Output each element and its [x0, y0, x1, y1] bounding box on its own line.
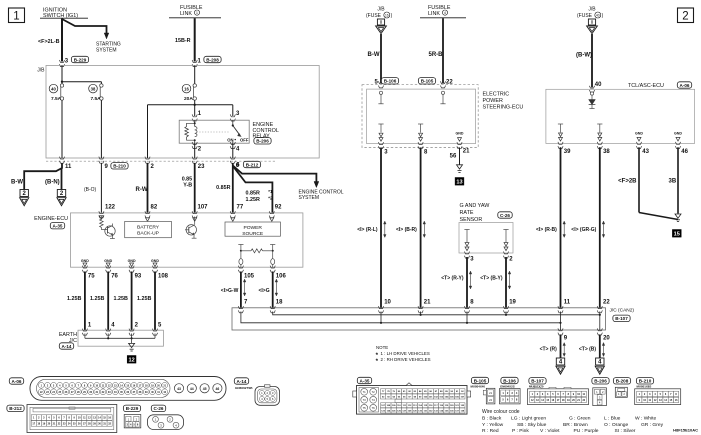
svg-text:<T> (B): <T> (B) — [579, 347, 597, 353]
svg-text:G AND YAW: G AND YAW — [460, 203, 491, 209]
jumper wire to relay pins 1 and 3 and to pin 2 exit — [148, 104, 233, 106]
wire 0.85 Y-B pin 23 to ECU pin 107 — [194, 163, 196, 213]
svg-text:74: 74 — [372, 398, 376, 402]
svg-text:20: 20 — [603, 336, 610, 342]
svg-text:1: 1 — [13, 11, 19, 23]
svg-text:B : Black: B : Black — [482, 416, 502, 422]
off-page arrow 2 right — [57, 190, 65, 197]
connector B-206 label — [592, 378, 609, 384]
svg-text:GN604X2S: GN604X2S — [500, 384, 515, 388]
connector A-14 drawing — [255, 387, 280, 406]
svg-text:1.25B: 1.25B — [90, 296, 104, 302]
TCL pin 40 junction — [589, 86, 594, 88]
svg-text:21: 21 — [424, 300, 431, 306]
ECU internal transistor at pin 107 — [186, 225, 196, 235]
connector junction B-105 22 — [440, 81, 445, 83]
svg-text:76: 76 — [372, 406, 376, 410]
CAN-H bus line — [241, 312, 561, 323]
svg-text:MU801X8S: MU801X8S — [637, 384, 652, 388]
svg-text:TCL/ASC-ECU: TCL/ASC-ECU — [628, 83, 664, 89]
svg-text:38: 38 — [603, 149, 610, 155]
svg-text:46: 46 — [216, 387, 220, 391]
CAN wire TCL pin 38 to J/C pin 22 — [599, 147, 601, 307]
wire R-W pin 2 to ECU pin 82 — [147, 163, 149, 213]
J/C CAN2 exit pin 20 — [597, 328, 602, 330]
svg-text:1.25B: 1.25B — [67, 296, 81, 302]
connector B-105 drawing — [486, 388, 495, 404]
svg-text:3B: 3B — [669, 179, 677, 185]
earth J/C internal bus — [84, 334, 86, 339]
J/C CAN2 entry pin 7 — [238, 306, 243, 308]
wire fusible link 1 to J/B pin 1 — [194, 18, 196, 61]
svg-text:21: 21 — [463, 149, 470, 155]
svg-text:SOURCE: SOURCE — [242, 231, 264, 237]
svg-text:13: 13 — [456, 180, 462, 186]
sheet number 1 box — [9, 8, 25, 23]
svg-text:J/C (CAN2): J/C (CAN2) — [610, 308, 635, 314]
J/B exit pin 23 — [192, 157, 197, 159]
svg-text:73: 73 — [363, 398, 367, 402]
relay switch contact — [232, 120, 234, 125]
svg-text:B-210: B-210 — [639, 379, 652, 384]
svg-text:22: 22 — [603, 300, 610, 306]
svg-text:B-105: B-105 — [421, 79, 434, 84]
svg-text:16: 16 — [184, 86, 189, 91]
svg-text:105: 105 — [244, 274, 255, 280]
connector B-210 label — [636, 378, 653, 384]
wire (B-W) to TCL pin 40 — [591, 34, 593, 88]
svg-text:BATTERY: BATTERY — [137, 224, 160, 230]
svg-text:L : Blue: L : Blue — [604, 416, 621, 422]
svg-text:ELECTRIC: ELECTRIC — [483, 91, 510, 97]
connector A-14 label — [234, 378, 248, 384]
svg-text:B-210: B-210 — [113, 164, 126, 169]
svg-text:STEERING-ECU: STEERING-ECU — [483, 104, 524, 110]
svg-text:SENSOR: SENSOR — [460, 217, 483, 223]
svg-text:Y-B: Y-B — [183, 183, 192, 189]
connector B-206 drawing — [593, 388, 607, 406]
ENGINE-ECU box A-35 — [71, 213, 303, 267]
svg-text:BR : Brown: BR : Brown — [563, 422, 588, 428]
wire fuse 40 to pin 11 — [61, 100, 63, 158]
svg-text:C-26: C-26 — [500, 213, 510, 218]
CAN wire ECU pin 106 to J/C pin 18 — [270, 266, 275, 268]
svg-text:A-06: A-06 — [680, 83, 690, 88]
relay coil with parallel resistor — [194, 120, 196, 126]
svg-text:GND: GND — [104, 259, 112, 263]
svg-text:LINK: LINK — [180, 11, 192, 17]
svg-text:A-35: A-35 — [53, 224, 63, 229]
EPS internal output stubs — [378, 123, 383, 125]
off-page arrow 2 left — [20, 190, 28, 197]
wire ignition switch to J/B pin 3 — [61, 19, 63, 62]
TCL internal output stubs — [558, 123, 563, 125]
J/B exit pin 11 — [59, 157, 64, 159]
svg-text:GND: GND — [81, 259, 89, 263]
svg-text:J/B: J/B — [37, 68, 45, 74]
J/C CAN2 entry pin 8 — [464, 306, 469, 308]
ECU input junction — [192, 211, 197, 213]
svg-text:1.25R: 1.25R — [246, 197, 260, 203]
CAN wire EPS pin 3 to J/C pin 10 — [380, 148, 382, 308]
svg-text:75: 75 — [363, 406, 367, 410]
svg-text:B-106: B-106 — [503, 378, 516, 383]
svg-text:J/B: J/B — [377, 7, 385, 13]
svg-text:72: 72 — [372, 390, 376, 394]
svg-text:W : White: W : White — [635, 416, 656, 422]
connector B-208 label — [613, 378, 630, 384]
svg-text:B-208: B-208 — [206, 57, 219, 62]
svg-text:10: 10 — [384, 300, 391, 306]
svg-text:1: 1 — [196, 11, 198, 15]
sensor output junctions 3 2 — [464, 252, 469, 254]
electric power steering ECU dashed box — [362, 85, 478, 148]
earth J/C input junction — [82, 329, 87, 331]
earth J/C input junction — [106, 329, 111, 331]
svg-text:(FUSE: (FUSE — [366, 13, 382, 19]
svg-text:B-206: B-206 — [256, 139, 269, 144]
ECU ground pin 75 junction and wire — [82, 266, 87, 268]
connector C-26 label — [151, 405, 165, 411]
sensor internal stubs — [464, 229, 469, 231]
svg-text:15: 15 — [674, 232, 680, 238]
svg-text:GND: GND — [674, 131, 682, 135]
fuse 16 20A — [194, 66, 196, 85]
svg-text:<F>2L-B: <F>2L-B — [38, 39, 60, 45]
POWER SOURCE box — [225, 222, 280, 236]
svg-text:40: 40 — [595, 82, 602, 88]
svg-text:GN60627SB: GN60627SB — [235, 386, 253, 390]
svg-text:77: 77 — [237, 205, 244, 211]
svg-text:LG : Light green: LG : Light green — [511, 416, 546, 422]
connector B-212 label — [7, 405, 24, 411]
svg-text:A-35: A-35 — [360, 378, 370, 383]
svg-text:B-208: B-208 — [616, 379, 629, 384]
electric power steering ECU inner box — [367, 89, 476, 144]
CAN wire EPS pin 8 to J/C pin 21 — [420, 148, 422, 308]
bus tap verticals — [380, 312, 382, 323]
svg-text:B-105: B-105 — [474, 378, 487, 383]
svg-text:O : Orange: O : Orange — [604, 422, 628, 428]
J/B exit pin 6 B-212 — [230, 157, 235, 159]
exit wire <T>(R) to off-page 4 — [560, 335, 562, 359]
svg-text:POWER: POWER — [483, 98, 503, 104]
svg-text:<I> (R-L): <I> (R-L) — [357, 227, 378, 233]
branch wire to starting system with arrow — [62, 19, 107, 34]
earth J/C input junction — [129, 329, 134, 331]
svg-text:A-06: A-06 — [12, 379, 22, 384]
EPS ground wire and ground ref 13 — [459, 148, 461, 165]
earth J/C input junction — [152, 329, 157, 331]
svg-text:C-26: C-26 — [154, 406, 164, 411]
J/B exit pin 2 — [145, 157, 150, 159]
svg-text:0.85R: 0.85R — [216, 185, 230, 191]
connector junction 3 B-229 — [59, 60, 64, 62]
svg-text:23: 23 — [198, 164, 205, 170]
fuse 38 7.5A — [100, 84, 103, 87]
svg-text:(B-W): (B-W) — [576, 53, 592, 59]
svg-text:B-212: B-212 — [9, 406, 22, 411]
connector C-26 drawing — [148, 415, 184, 430]
svg-text:11: 11 — [564, 300, 571, 306]
svg-text:SYSTEM: SYSTEM — [96, 47, 117, 53]
svg-text:POWER: POWER — [243, 225, 262, 231]
wire pin 11 to off-page arrows — [24, 163, 62, 190]
connector row dashed line under J/B — [46, 160, 276, 162]
svg-text:19: 19 — [509, 300, 516, 306]
svg-text:71: 71 — [363, 390, 367, 394]
connector junction 5 B-106 — [378, 81, 383, 83]
svg-text:B-106: B-106 — [384, 79, 397, 84]
CAN wire sensor pin 3 to J/C pin 8 — [466, 257, 468, 308]
svg-text:106: 106 — [276, 274, 287, 280]
off-page arrow 4 right — [596, 358, 604, 365]
svg-text:R : Red: R : Red — [482, 428, 499, 434]
svg-text:7.5A: 7.5A — [91, 96, 102, 102]
connector A-35 drawing — [357, 386, 468, 415]
svg-text:<I>G: <I>G — [258, 288, 269, 294]
svg-text:RATE: RATE — [460, 210, 474, 216]
ECU internal resistor and transistor at pin 122 — [100, 216, 104, 230]
svg-text:GND: GND — [128, 259, 136, 263]
svg-text:H8F15E10AC: H8F15E10AC — [673, 428, 698, 433]
svg-text:39: 39 — [564, 149, 571, 155]
svg-text:92: 92 — [275, 205, 282, 211]
svg-text:LINK: LINK — [428, 11, 440, 17]
svg-text:V : Violet: V : Violet — [540, 428, 560, 434]
off-page arrow 4 left — [556, 358, 564, 365]
svg-text:G : Green: G : Green — [569, 416, 591, 422]
connector A-06 drawing — [30, 377, 226, 401]
connector B-106 label — [501, 377, 518, 383]
svg-text:Y : Yellow: Y : Yellow — [482, 422, 504, 428]
connector B-107 label — [529, 378, 546, 384]
svg-text:B-107: B-107 — [531, 379, 544, 384]
svg-text:11: 11 — [65, 164, 72, 170]
wire from pin 3 to fuses 40 and 38 — [61, 66, 63, 85]
connector B-229 drawing — [124, 415, 141, 428]
svg-text:4: 4 — [444, 11, 446, 15]
G and yaw rate sensor box — [459, 223, 513, 254]
svg-text:MU804X40: MU804X40 — [471, 384, 486, 388]
ECU ground pin 108 junction and wire — [152, 266, 157, 268]
ECU ground pin 76 junction and wire — [106, 266, 111, 268]
svg-text:40: 40 — [596, 14, 600, 18]
svg-text:108: 108 — [158, 274, 169, 280]
svg-text:NOTE: NOTE — [376, 345, 388, 350]
svg-text:B-W: B-W — [368, 52, 380, 58]
svg-text:B-206: B-206 — [594, 379, 607, 384]
connector junction 1 B-208 — [192, 60, 197, 62]
connector B-105 label — [471, 377, 488, 383]
svg-text:5R-B: 5R-B — [429, 52, 444, 58]
svg-text:GR : Grey: GR : Grey — [641, 422, 664, 428]
exit wire <T>(B) to off-page 4 — [599, 335, 601, 359]
svg-text:<I> (B-R): <I> (B-R) — [396, 227, 417, 233]
connector B-210 drawing — [635, 389, 681, 405]
svg-text:(B-O): (B-O) — [84, 187, 97, 193]
svg-text:15B-R: 15B-R — [175, 38, 191, 44]
EPS internal input stubs — [379, 91, 382, 94]
svg-text:43: 43 — [177, 387, 181, 391]
fuse symbol EPS feed — [377, 19, 384, 25]
BATTERY BACK-UP box — [125, 221, 172, 237]
J/C CAN2 entry pin 19 — [503, 306, 508, 308]
ECU ground pin 93 junction and wire — [129, 266, 134, 268]
svg-text:<I> (GR-G): <I> (GR-G) — [571, 227, 596, 233]
wire 0.85R pin 6 to ECU pin 77 — [232, 163, 234, 213]
svg-text:GND: GND — [456, 132, 464, 136]
svg-text:(FUSE: (FUSE — [577, 13, 593, 19]
connector A-35 label — [357, 377, 371, 383]
svg-text:SI : Silver: SI : Silver — [615, 428, 636, 434]
EARTH J/C box A-14 — [78, 330, 163, 346]
svg-text:76: 76 — [111, 274, 118, 280]
wire B-W to EPS-ECU pin 5 — [380, 34, 382, 83]
J/C CAN2 entry pin 11 — [558, 306, 563, 308]
relay pin 1 label — [192, 114, 197, 116]
svg-text:ENGINE-ECU: ENGINE-ECU — [34, 216, 68, 222]
earth ground symbol and ground ref 12 — [131, 338, 133, 343]
connector B-212 drawing — [27, 405, 117, 433]
svg-text:B-107: B-107 — [615, 316, 628, 321]
svg-text:2 : RH DRIVE VEHICLES: 2 : RH DRIVE VEHICLES — [381, 357, 431, 362]
svg-text:40: 40 — [51, 86, 56, 91]
connector B-208 drawing — [615, 387, 627, 397]
CAN termination resistor inside ECU — [238, 244, 243, 246]
svg-text:7.5A: 7.5A — [51, 96, 62, 102]
engine control relay box B-206 — [179, 120, 249, 143]
svg-text:<I> (R-B): <I> (R-B) — [536, 227, 557, 233]
fuse symbol TCL feed — [588, 19, 595, 25]
svg-text:82: 82 — [151, 205, 158, 211]
svg-text:107: 107 — [198, 205, 209, 211]
svg-text:<I>G-W: <I>G-W — [221, 288, 239, 294]
svg-text:A-14: A-14 — [62, 344, 72, 349]
svg-text:46: 46 — [681, 149, 688, 155]
svg-text:44: 44 — [190, 387, 194, 391]
svg-text:BACK-UP: BACK-UP — [137, 231, 159, 237]
svg-text:12: 12 — [128, 358, 134, 364]
svg-text:18: 18 — [276, 300, 283, 306]
branch wire to engine control system with arrow — [233, 166, 317, 183]
svg-text:PU : Purple: PU : Purple — [574, 428, 599, 434]
svg-text:<T> (R-Y): <T> (R-Y) — [441, 276, 464, 282]
svg-text:*2: *2 — [268, 196, 273, 201]
TCL/ASC-ECU box — [546, 89, 695, 143]
fuse 40 7.5A — [60, 84, 63, 87]
svg-text:75: 75 — [88, 274, 95, 280]
CAN-L bus line — [273, 312, 600, 315]
relay pin 4 — [230, 142, 235, 144]
ECU input junction — [145, 211, 150, 213]
sheet number 2 box — [678, 8, 694, 23]
J/B junction block box — [46, 66, 319, 159]
svg-text:1.25B: 1.25B — [114, 296, 128, 302]
wire fuse 16 to relay jumper — [194, 100, 196, 105]
svg-text:R-W: R-W — [136, 187, 148, 193]
svg-text:*1: *1 — [268, 189, 273, 194]
ECU input junction — [269, 211, 274, 213]
svg-text:0.85R: 0.85R — [246, 191, 260, 197]
svg-text:GND: GND — [151, 259, 159, 263]
svg-text:93: 93 — [135, 274, 142, 280]
CAN wire TCL pin 39 to J/C pin 11 — [560, 147, 562, 307]
svg-text:OFF: OFF — [240, 137, 249, 142]
svg-text:B-W: B-W — [11, 180, 23, 186]
ECU internal triangle marks — [146, 218, 150, 222]
connector B-106 drawing — [500, 389, 521, 404]
svg-text:B-212: B-212 — [246, 162, 259, 167]
wire 5R-B to EPS-ECU pin 22 — [442, 18, 444, 83]
branch wire to ECU pin 92 — [233, 166, 273, 213]
svg-text:Wire colour code: Wire colour code — [482, 409, 520, 415]
svg-text:SYSTEM: SYSTEM — [299, 195, 320, 201]
J/C CAN2 entry pin 18 — [270, 306, 275, 308]
TCL internal diode — [590, 92, 593, 95]
J/C CAN2 exit pin 9 — [558, 328, 563, 330]
relay pin 2 — [192, 142, 197, 144]
J/C CAN2 entry pin 10 — [378, 306, 383, 308]
J/C CAN2 entry pin 21 — [418, 306, 423, 308]
CAN wire ECU pin 105 to J/C pin 7 — [238, 266, 243, 268]
svg-text:2: 2 — [682, 11, 688, 23]
EPS output junctions 3 8 21 — [378, 142, 383, 144]
svg-text:SB : Sky blue: SB : Sky blue — [517, 422, 547, 428]
relay pin 3 label — [230, 114, 235, 116]
CAN wire sensor pin 2 to J/C pin 19 — [505, 257, 507, 308]
connector A-06 label — [9, 378, 23, 384]
svg-text:1.25B: 1.25B — [137, 296, 151, 302]
svg-text:38: 38 — [91, 86, 96, 91]
svg-text:20A: 20A — [184, 96, 193, 102]
svg-text:45: 45 — [203, 387, 207, 391]
ECU input junction — [99, 211, 104, 213]
wire fuse 38 to pin 9 — [100, 100, 102, 158]
svg-text:<T> (B-Y): <T> (B-Y) — [480, 276, 503, 282]
J/B exit pin 9 B-210 — [99, 157, 104, 159]
svg-text:1 : LH DRIVE VEHICLES: 1 : LH DRIVE VEHICLES — [381, 351, 430, 356]
svg-text:(B-N): (B-N) — [45, 180, 60, 186]
svg-text:GND: GND — [635, 131, 643, 135]
svg-text:A-14: A-14 — [237, 379, 247, 384]
svg-text:J/B: J/B — [588, 7, 596, 13]
ECU input junction — [230, 211, 235, 213]
TCL output junctions 39 38 43 46 — [558, 142, 563, 144]
svg-text:<T> (R): <T> (R) — [540, 347, 558, 353]
svg-text:56: 56 — [450, 154, 457, 160]
svg-text:122: 122 — [105, 205, 116, 211]
svg-text:B-229: B-229 — [126, 406, 139, 411]
TCL ground wires 43 46 to earth 15 — [638, 147, 640, 212]
svg-text:16: 16 — [385, 14, 389, 18]
connector B-229 label — [123, 405, 140, 411]
svg-text:<F>2B: <F>2B — [618, 179, 637, 185]
svg-text:B-229: B-229 — [74, 57, 87, 62]
wire (B-O) pin 9 to ECU pin 122 — [100, 163, 102, 213]
J/C CAN2 entry pin 22 — [597, 306, 602, 308]
svg-text:43: 43 — [642, 149, 649, 155]
svg-text:P : Pink: P : Pink — [512, 428, 529, 434]
J/C CAN2 box B-107 — [232, 308, 606, 330]
connector B-107 drawing — [528, 389, 589, 405]
